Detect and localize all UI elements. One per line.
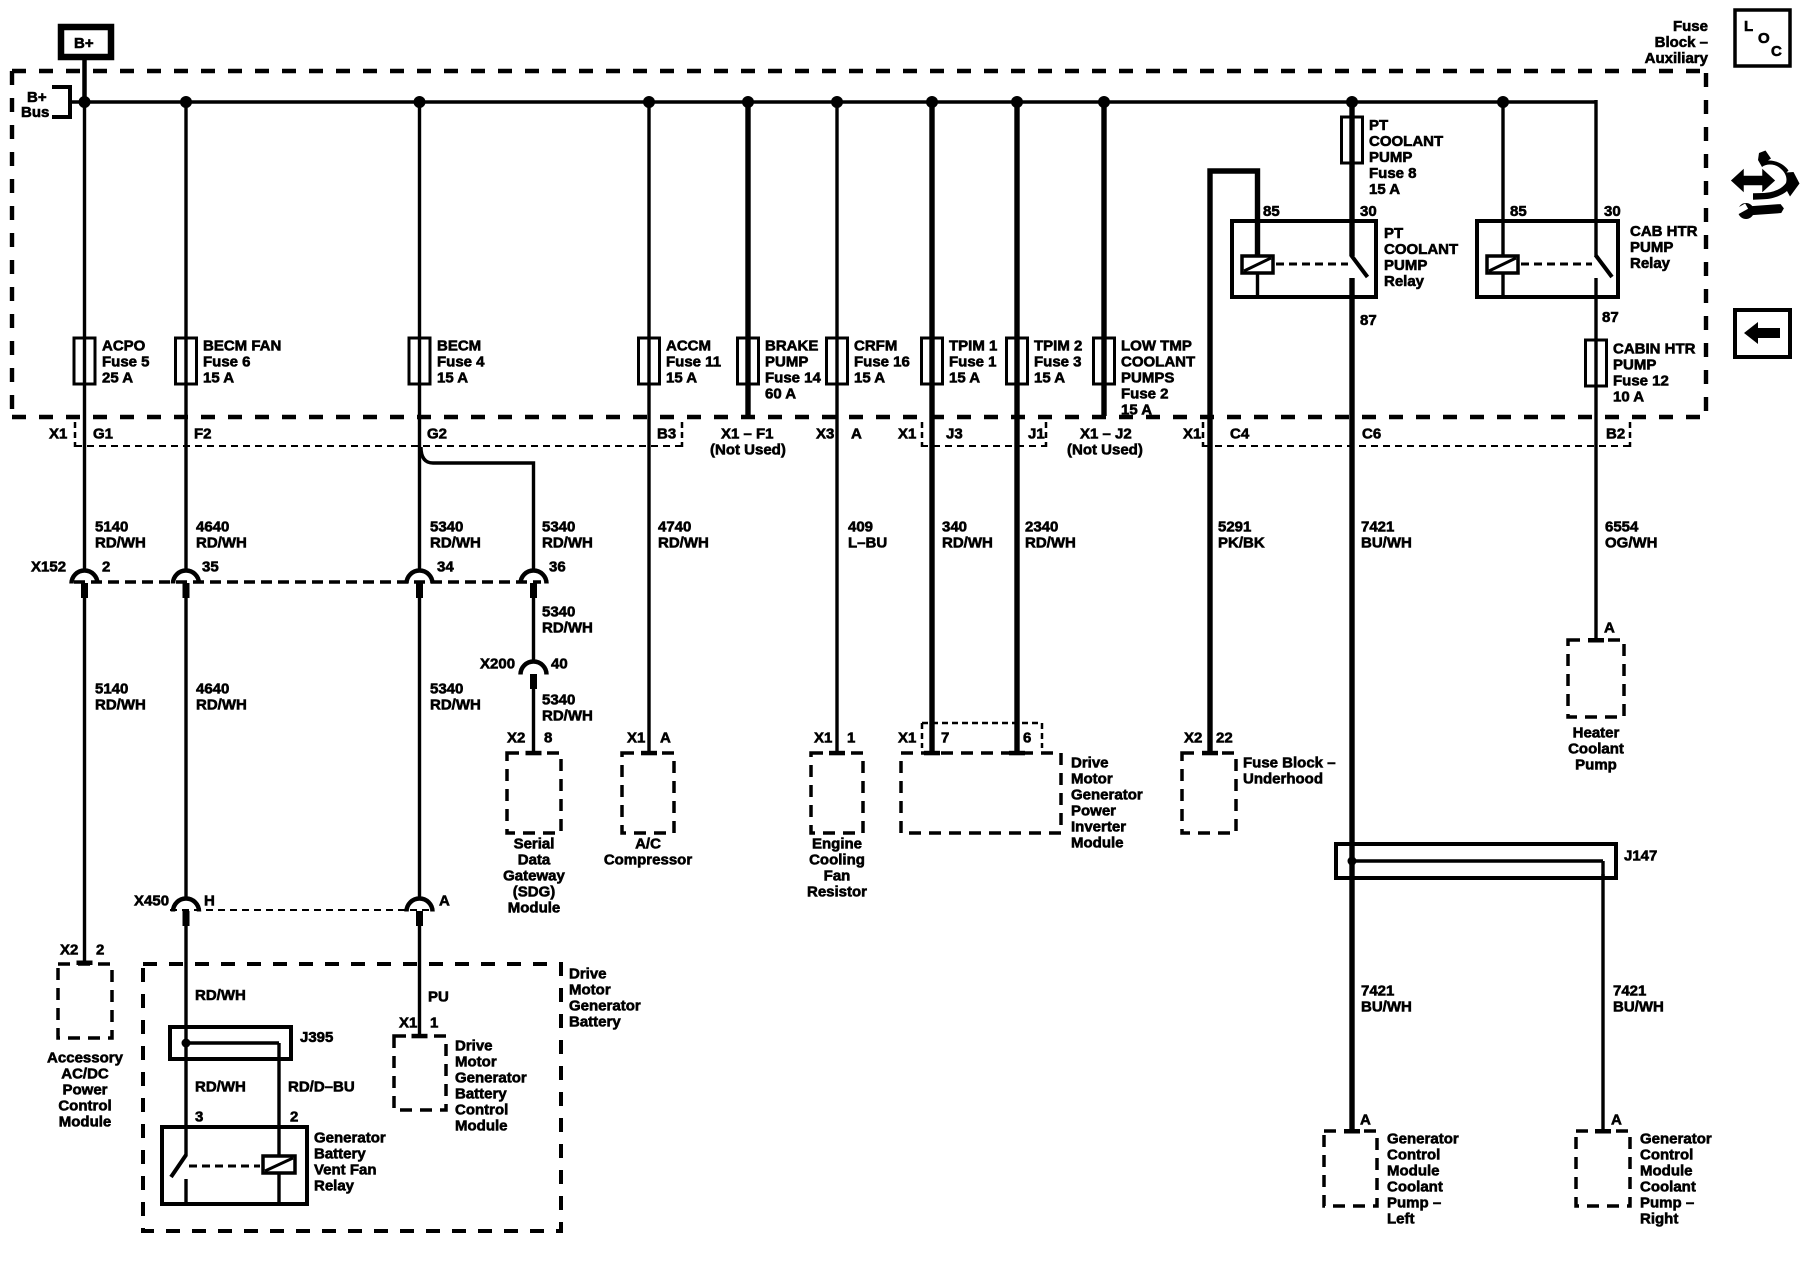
wire col1 X152 to X2 connector — [83, 598, 86, 964]
node bus-F14 — [742, 96, 754, 108]
svg-text:Generator: Generator — [314, 1130, 386, 1147]
svg-text:15 A: 15 A — [949, 370, 980, 387]
svg-text:Drive: Drive — [569, 966, 607, 983]
svg-text:15 A: 15 A — [1034, 370, 1065, 387]
svg-text:PUMP: PUMP — [1369, 149, 1412, 166]
svg-text:4740: 4740 — [658, 519, 691, 536]
svg-text:RD/WH: RD/WH — [95, 697, 146, 714]
svg-text:Cooling: Cooling — [809, 852, 865, 869]
connector X1 pins 7 6 inverter notch — [898, 723, 1042, 748]
svg-text:RD/WH: RD/WH — [1025, 535, 1076, 552]
module drive motor generator battery control — [394, 1036, 527, 1135]
relay K3 generator battery vent fan — [162, 1127, 386, 1204]
svg-text:1: 1 — [847, 730, 855, 747]
svg-text:A: A — [851, 426, 862, 443]
svg-text:7: 7 — [941, 730, 949, 747]
svg-text:Inverter: Inverter — [1071, 819, 1126, 836]
wire col5 bus to fuse F14 — [745, 102, 750, 338]
label wire 5340 RD/WH above X200 — [542, 604, 593, 637]
node bus-F8 — [1346, 96, 1358, 108]
node bus-F3 — [1011, 96, 1023, 108]
svg-text:6554: 6554 — [1605, 519, 1639, 536]
label wire 409 L-BU — [848, 519, 887, 552]
fuse block underhood — [1182, 753, 1336, 833]
svg-text:X1 – F1: X1 – F1 — [721, 426, 774, 443]
splice J147 — [1336, 844, 1657, 878]
svg-text:TPIM 1: TPIM 1 — [949, 338, 997, 355]
wire 5291 to fuse block underhood — [1207, 417, 1212, 753]
svg-text:Battery: Battery — [314, 1146, 366, 1163]
svg-text:RD/WH: RD/WH — [196, 535, 247, 552]
connector X1 pin 1 battery control module — [399, 1015, 438, 1032]
svg-text:Coolant: Coolant — [1640, 1179, 1696, 1196]
svg-text:Serial: Serial — [514, 836, 555, 853]
fuse F6 BECM FAN 15A — [176, 338, 282, 387]
node bus-F16 — [831, 96, 843, 108]
svg-text:Bus: Bus — [21, 104, 49, 121]
wire branch G2 to pin36 — [421, 447, 534, 570]
wire col3 bus to fuse F4 — [418, 102, 421, 338]
svg-text:15 A: 15 A — [854, 370, 885, 387]
svg-text:RD/WH: RD/WH — [430, 697, 481, 714]
svg-text:X2: X2 — [1184, 730, 1202, 747]
svg-text:X3: X3 — [816, 426, 834, 443]
svg-text:Relay: Relay — [314, 1178, 355, 1195]
svg-text:8: 8 — [544, 730, 552, 747]
svg-text:15 A: 15 A — [203, 370, 234, 387]
svg-text:BU/WH: BU/WH — [1361, 999, 1412, 1016]
svg-text:RD/WH: RD/WH — [95, 535, 146, 552]
svg-text:Motor: Motor — [1071, 771, 1113, 788]
splice J395 — [170, 1027, 333, 1059]
svg-text:Motor: Motor — [569, 982, 611, 999]
module serial data gateway — [503, 753, 565, 917]
connector row separators — [75, 422, 1630, 447]
svg-text:CABIN HTR: CABIN HTR — [1613, 341, 1696, 358]
svg-text:B3: B3 — [657, 426, 676, 443]
svg-text:Power: Power — [1071, 803, 1116, 820]
svg-text:Fuse 4: Fuse 4 — [437, 354, 485, 371]
svg-text:85: 85 — [1510, 203, 1527, 220]
label wire 5140 RD/WH lower — [95, 681, 146, 714]
wire col8 fuse to inverter pin6 — [1014, 384, 1019, 753]
svg-text:C: C — [1771, 43, 1782, 60]
terminal T-bar AC compressor X1-A — [641, 751, 657, 756]
svg-text:X200: X200 — [480, 656, 515, 673]
svg-text:Right: Right — [1640, 1211, 1678, 1228]
pin label X1-J2 not used — [1067, 426, 1143, 459]
svg-text:5340: 5340 — [542, 519, 575, 536]
svg-text:X1: X1 — [49, 426, 67, 443]
terminal T-bar GCM right A — [1595, 1129, 1611, 1134]
svg-text:B+: B+ — [74, 35, 94, 52]
svg-text:35: 35 — [202, 559, 219, 576]
node bus-F4 — [414, 96, 426, 108]
terminal T-bar heater pump A — [1588, 638, 1604, 643]
svg-text:CRFM: CRFM — [854, 338, 897, 355]
wire col1 bus to fuse F5 — [83, 102, 86, 338]
label wire 5340 RD/WH pin36 — [542, 519, 593, 552]
connector X450 — [134, 893, 433, 911]
wire col2 bus to fuse F6 — [184, 102, 187, 338]
svg-text:PK/BK: PK/BK — [1218, 535, 1265, 552]
wire col3b X152 to X200 — [532, 598, 535, 661]
svg-text:Module: Module — [1071, 835, 1124, 852]
wire bus corner to K2 pin30 — [1594, 100, 1597, 256]
svg-text:Pump –: Pump – — [1640, 1195, 1694, 1212]
svg-text:30: 30 — [1604, 203, 1621, 220]
svg-text:COOLANT: COOLANT — [1384, 241, 1458, 258]
svg-text:AC/DC: AC/DC — [61, 1066, 109, 1083]
svg-text:PUMP: PUMP — [1630, 239, 1673, 256]
label wire 4740 RD/WH — [658, 519, 709, 552]
svg-text:RD/WH: RD/WH — [195, 1079, 246, 1096]
svg-text:RD/WH: RD/WH — [658, 535, 709, 552]
module generator control coolant pump left — [1324, 1131, 1459, 1228]
svg-text:2: 2 — [102, 559, 110, 576]
svg-text:Fuse 5: Fuse 5 — [102, 354, 150, 371]
wire K2 pin87 to fuse F12 — [1594, 278, 1597, 340]
wire cab relay coil feed — [1501, 102, 1504, 256]
svg-text:BRAKE: BRAKE — [765, 338, 818, 355]
power symbol B+ — [61, 27, 111, 57]
svg-text:RD/WH: RD/WH — [195, 987, 246, 1004]
svg-text:Fuse 11: Fuse 11 — [666, 354, 721, 371]
svg-text:L–BU: L–BU — [848, 535, 887, 552]
svg-text:2: 2 — [290, 1109, 298, 1126]
svg-text:Fuse 1: Fuse 1 — [949, 354, 997, 371]
svg-text:G2: G2 — [427, 426, 447, 443]
svg-text:ACCM: ACCM — [666, 338, 711, 355]
wire col7 bus to fuse F1 — [929, 102, 934, 338]
label wire 5291 PK/BK — [1218, 519, 1265, 552]
connector X450 pin H — [173, 893, 215, 927]
connector X152 pin 2 — [72, 559, 111, 599]
resistor engine cooling fan — [807, 753, 867, 901]
label wire 340 RD/WH — [942, 519, 993, 552]
module generator control coolant pump right — [1576, 1131, 1712, 1228]
module A/C compressor — [604, 753, 693, 869]
svg-text:(SDG): (SDG) — [513, 884, 556, 901]
svg-text:Fan: Fan — [824, 868, 851, 885]
svg-text:J147: J147 — [1624, 848, 1657, 865]
wire col2 fuse to X152 pin35 — [184, 384, 187, 570]
terminal T-bar SDG X2-8 — [526, 751, 542, 756]
svg-text:Resistor: Resistor — [807, 884, 867, 901]
svg-text:Block –: Block – — [1655, 34, 1708, 51]
wire PU X450 to battery control module — [418, 926, 421, 1036]
wire col3 X152 to X450 — [418, 598, 421, 898]
svg-text:Module: Module — [508, 900, 561, 917]
svg-text:A: A — [1611, 1112, 1622, 1129]
svg-text:J1: J1 — [1028, 426, 1045, 443]
svg-text:10 A: 10 A — [1613, 389, 1644, 406]
svg-text:5340: 5340 — [430, 519, 463, 536]
wire col4 bus to fuse F11 — [647, 102, 650, 338]
svg-text:(Not Used): (Not Used) — [710, 442, 786, 459]
svg-text:ACPO: ACPO — [102, 338, 146, 355]
svg-text:RD/WH: RD/WH — [430, 535, 481, 552]
svg-text:X450: X450 — [134, 893, 169, 910]
label wire 7421 BU/WH upper — [1361, 519, 1412, 552]
svg-text:3: 3 — [195, 1109, 203, 1126]
svg-text:RD/WH: RD/WH — [542, 708, 593, 725]
svg-text:60 A: 60 A — [765, 386, 796, 403]
battery box drive motor generator battery — [143, 964, 641, 1231]
svg-text:X2: X2 — [507, 730, 525, 747]
svg-text:Fuse 6: Fuse 6 — [203, 354, 251, 371]
svg-text:COOLANT: COOLANT — [1369, 133, 1443, 150]
wire col6 fuse to engine cooling fan resistor — [835, 384, 838, 753]
icon LOC box — [1735, 10, 1790, 66]
node bus-F1 — [926, 96, 938, 108]
connector row bottom dashed line segments — [75, 445, 1630, 447]
wire RD/D-BU J395 to vent fan relay coil — [277, 1043, 280, 1156]
fuse F1 TPIM1 15A — [922, 338, 998, 387]
svg-text:Battery: Battery — [455, 1086, 507, 1103]
svg-text:BECM: BECM — [437, 338, 481, 355]
pin label X1-F1 not used — [710, 426, 786, 459]
terminal T-bar control module X1-1 — [412, 1034, 428, 1039]
svg-text:22: 22 — [1216, 730, 1233, 747]
svg-text:G1: G1 — [93, 426, 113, 443]
svg-text:85: 85 — [1263, 203, 1280, 220]
B+ bus bracket — [21, 87, 70, 121]
svg-text:X1: X1 — [399, 1015, 417, 1032]
svg-text:30: 30 — [1360, 203, 1377, 220]
svg-text:Generator: Generator — [455, 1070, 527, 1087]
svg-text:PUMP: PUMP — [1384, 257, 1427, 274]
svg-text:Fuse 8: Fuse 8 — [1369, 165, 1417, 182]
svg-text:87: 87 — [1360, 312, 1377, 329]
label wire 5340 RD/WH pin34 — [430, 519, 481, 552]
node bus-F5 — [79, 96, 91, 108]
svg-text:5291: 5291 — [1218, 519, 1251, 536]
svg-text:Fuse: Fuse — [1673, 18, 1708, 35]
wire col3 fuse to X152 pin34 — [418, 384, 421, 570]
fuse block auxiliary dashed boundary — [12, 71, 1706, 417]
svg-text:Generator: Generator — [1387, 1131, 1459, 1148]
node bus-K2coil — [1497, 96, 1509, 108]
svg-text:X152: X152 — [31, 559, 66, 576]
svg-text:TPIM 2: TPIM 2 — [1034, 338, 1082, 355]
svg-text:Generator: Generator — [1071, 787, 1143, 804]
svg-text:15 A: 15 A — [1121, 402, 1152, 419]
svg-text:Drive: Drive — [455, 1038, 493, 1055]
svg-text:X1 – J2: X1 – J2 — [1080, 426, 1132, 443]
svg-text:Engine: Engine — [812, 836, 862, 853]
svg-text:Module: Module — [1640, 1163, 1693, 1180]
wire col7 fuse to inverter pin7 — [929, 384, 934, 753]
svg-text:6: 6 — [1023, 730, 1031, 747]
svg-text:Compressor: Compressor — [604, 852, 693, 869]
node bus-F6 — [180, 96, 192, 108]
svg-text:Generator: Generator — [569, 998, 641, 1015]
svg-text:36: 36 — [549, 559, 566, 576]
svg-text:X2: X2 — [60, 942, 78, 959]
fuse F16 CRFM 15A — [827, 338, 910, 387]
svg-text:Generator: Generator — [1640, 1131, 1712, 1148]
fuse F4 BECM 15A — [409, 338, 485, 387]
svg-text:Control: Control — [1387, 1147, 1440, 1164]
svg-text:A: A — [1360, 1112, 1371, 1129]
svg-text:Coolant: Coolant — [1568, 741, 1624, 758]
icon back arrow box — [1735, 310, 1790, 357]
svg-text:Control: Control — [455, 1102, 508, 1119]
svg-text:X1: X1 — [1183, 426, 1201, 443]
svg-text:A/C: A/C — [635, 836, 661, 853]
svg-text:Heater: Heater — [1573, 725, 1620, 742]
svg-text:RD/WH: RD/WH — [942, 535, 993, 552]
svg-text:7421: 7421 — [1361, 519, 1394, 536]
wire 7421 J147 to right pump module — [1601, 874, 1604, 1131]
svg-text:COOLANT: COOLANT — [1121, 354, 1195, 371]
svg-text:Pump –: Pump – — [1387, 1195, 1441, 1212]
svg-text:A: A — [660, 730, 671, 747]
node bus-F11 — [643, 96, 655, 108]
wire col1 fuse to X152 pin2 — [83, 384, 86, 570]
terminal T-bar underhood X2-22 — [1202, 751, 1218, 756]
svg-text:15 A: 15 A — [1369, 181, 1400, 198]
wire col8 bus to fuse F3 — [1014, 102, 1019, 338]
svg-text:Module: Module — [1387, 1163, 1440, 1180]
connector X152 pin 34 — [407, 559, 455, 599]
svg-text:Underhood: Underhood — [1243, 771, 1323, 788]
label wire 4640 RD/WH lower — [196, 681, 247, 714]
svg-text:5340: 5340 — [430, 681, 463, 698]
svg-text:X1: X1 — [898, 426, 916, 443]
module accessory AC/DC power control — [47, 964, 124, 1131]
svg-text:RD/WH: RD/WH — [196, 697, 247, 714]
wire col9 fuse to X1-J2 — [1101, 384, 1106, 416]
svg-text:X1: X1 — [814, 730, 832, 747]
svg-text:BU/WH: BU/WH — [1613, 999, 1664, 1016]
svg-text:PUMP: PUMP — [1613, 357, 1656, 374]
connector X2 pin 8 SDG module — [507, 730, 552, 747]
svg-text:Motor: Motor — [455, 1054, 497, 1071]
icon navigate double-arrow with wrench — [1732, 151, 1800, 220]
wire col9 bus to fuse F2 — [1101, 102, 1106, 338]
svg-text:PU: PU — [428, 989, 449, 1006]
svg-text:Accessory: Accessory — [47, 1050, 124, 1067]
wire 6554 fuse F12 to heater pump — [1594, 386, 1597, 640]
svg-text:Power: Power — [62, 1082, 107, 1099]
svg-text:X1: X1 — [898, 730, 916, 747]
svg-text:Fuse Block –: Fuse Block – — [1243, 755, 1336, 772]
svg-text:J3: J3 — [946, 426, 963, 443]
svg-text:Auxiliary: Auxiliary — [1645, 50, 1709, 67]
svg-text:87: 87 — [1602, 309, 1619, 326]
svg-text:34: 34 — [437, 559, 454, 576]
svg-text:(Not Used): (Not Used) — [1067, 442, 1143, 459]
terminal T-bar inverter pin6 — [1009, 751, 1025, 756]
svg-text:CAB HTR: CAB HTR — [1630, 223, 1698, 240]
svg-text:F2: F2 — [194, 426, 212, 443]
svg-text:Module: Module — [59, 1114, 112, 1131]
svg-text:Coolant: Coolant — [1387, 1179, 1443, 1196]
connector X2 pin 22 underhood — [1184, 730, 1233, 747]
svg-text:Fuse 16: Fuse 16 — [854, 354, 910, 371]
wire K1 pin87 down to J147 — [1349, 278, 1354, 1131]
node bus-F2 — [1098, 96, 1110, 108]
svg-text:1: 1 — [430, 1015, 438, 1032]
fuse F8 PT COOLANT PUMP 15A — [1342, 117, 1444, 198]
wire B+ lead — [82, 60, 87, 102]
svg-text:X1: X1 — [627, 730, 645, 747]
label wire 7421 BU/WH left — [1361, 983, 1412, 1016]
fuse F2 LOW TMP COOLANT PUMPS 15A — [1094, 338, 1196, 419]
label wire 7421 BU/WH right — [1613, 983, 1664, 1016]
terminal T-bar GCM left A — [1344, 1129, 1360, 1134]
svg-text:PT: PT — [1384, 225, 1403, 242]
relay K1 PT COOLANT PUMP — [1232, 203, 1458, 329]
svg-text:Control: Control — [58, 1098, 111, 1115]
fuse F5 ACPO 25A — [74, 338, 150, 387]
fuse F11 ACCM 15A — [639, 338, 722, 387]
wire col5 fuse to X1-F1 — [745, 384, 750, 416]
wire 5291 coil feed jog — [1210, 171, 1258, 417]
connector X152 pin 35 — [173, 559, 219, 599]
svg-text:7421: 7421 — [1613, 983, 1646, 1000]
svg-text:C6: C6 — [1362, 426, 1381, 443]
svg-text:Pump: Pump — [1575, 757, 1617, 774]
svg-text:409: 409 — [848, 519, 873, 536]
svg-text:PUMP: PUMP — [765, 354, 808, 371]
svg-text:Fuse 14: Fuse 14 — [765, 370, 822, 387]
svg-text:Relay: Relay — [1384, 273, 1425, 290]
svg-text:J395: J395 — [300, 1029, 333, 1046]
wire col4 fuse to A/C compressor — [647, 384, 650, 753]
svg-text:4640: 4640 — [196, 519, 229, 536]
wire col3b X200 to SDG module — [532, 689, 535, 753]
svg-text:Vent Fan: Vent Fan — [314, 1162, 377, 1179]
svg-text:Relay: Relay — [1630, 255, 1671, 272]
connector X1 pin A compressor — [627, 730, 671, 747]
svg-text:15 A: 15 A — [666, 370, 697, 387]
svg-text:340: 340 — [942, 519, 967, 536]
label wire 5340 RD/WH below X200 — [542, 692, 593, 725]
wire fuse F8 to relay K1 pin30 — [1349, 163, 1354, 256]
svg-text:5140: 5140 — [95, 681, 128, 698]
connector X1 pin 1 fan resistor — [814, 730, 855, 747]
fuse F3 TPIM2 15A — [1007, 338, 1083, 387]
terminal T-bar X2-2 — [77, 961, 93, 966]
svg-text:Left: Left — [1387, 1211, 1415, 1228]
terminal T-bar inverter pin7 — [924, 751, 940, 756]
fuse F12 CABIN HTR PUMP 10A — [1586, 340, 1696, 406]
svg-text:L: L — [1744, 18, 1753, 35]
svg-text:4640: 4640 — [196, 681, 229, 698]
label wire 5340 RD/WH pin34 lower — [430, 681, 481, 714]
svg-text:7421: 7421 — [1361, 983, 1394, 1000]
svg-text:BECM FAN: BECM FAN — [203, 338, 281, 355]
svg-text:Fuse 12: Fuse 12 — [1613, 373, 1669, 390]
svg-text:A: A — [439, 893, 450, 910]
svg-text:Gateway: Gateway — [503, 868, 565, 885]
wire B+ bus — [70, 100, 1596, 103]
svg-text:C4: C4 — [1230, 426, 1250, 443]
svg-text:Battery: Battery — [569, 1014, 621, 1031]
svg-text:RD/D–BU: RD/D–BU — [288, 1079, 355, 1096]
svg-text:A: A — [1604, 620, 1615, 637]
wire col2 X450 to vent fan relay — [184, 926, 187, 1156]
svg-text:25 A: 25 A — [102, 370, 133, 387]
svg-text:5340: 5340 — [542, 692, 575, 709]
label wire 6554 OG/WH — [1605, 519, 1658, 552]
svg-text:RD/WH: RD/WH — [542, 620, 593, 637]
svg-text:RD/WH: RD/WH — [542, 535, 593, 552]
fuse F14 BRAKE PUMP 60A — [738, 338, 822, 403]
